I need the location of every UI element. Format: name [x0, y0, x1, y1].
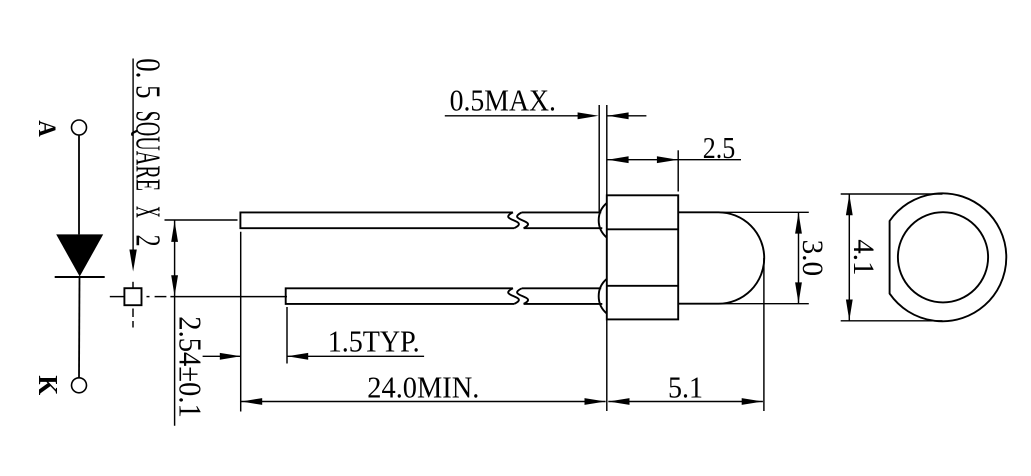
svg-text:0.5MAX.: 0.5MAX.: [450, 83, 556, 118]
svg-text:4.1: 4.1: [847, 239, 879, 275]
svg-text:SQUARE: SQUARE: [128, 111, 167, 191]
svg-text:K: K: [33, 375, 63, 395]
svg-text:X: X: [128, 206, 167, 218]
svg-text:3.0: 3.0: [796, 240, 828, 277]
svg-text:0. 5: 0. 5: [128, 58, 167, 98]
svg-text:2.54±0.1: 2.54±0.1: [172, 316, 208, 418]
svg-text:2: 2: [128, 235, 167, 247]
svg-text:24.0MIN.: 24.0MIN.: [367, 369, 479, 404]
svg-text:5.1: 5.1: [668, 370, 703, 405]
svg-text:A: A: [33, 120, 60, 137]
svg-text:1.5TYP.: 1.5TYP.: [328, 324, 420, 359]
